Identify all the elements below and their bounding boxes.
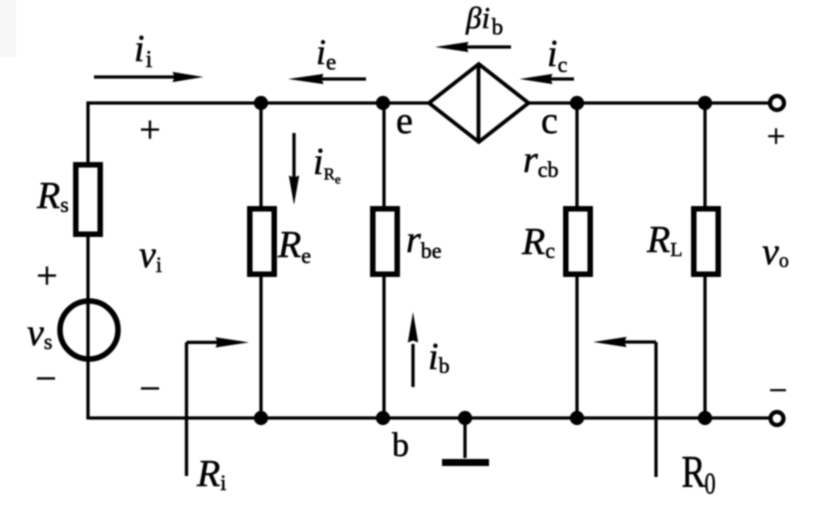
- svg-text:−: −: [769, 373, 788, 409]
- svg-text:c: c: [541, 100, 558, 142]
- svg-text:−: −: [35, 358, 56, 400]
- svg-text:R: R: [682, 446, 706, 497]
- svg-text:0: 0: [705, 466, 716, 500]
- svg-text:e: e: [396, 100, 413, 142]
- svg-text:+: +: [767, 119, 786, 155]
- svg-text:−: −: [139, 368, 160, 410]
- svg-text:+: +: [139, 109, 160, 151]
- svg-text:b: b: [392, 427, 409, 464]
- svg-text:+: +: [36, 255, 57, 297]
